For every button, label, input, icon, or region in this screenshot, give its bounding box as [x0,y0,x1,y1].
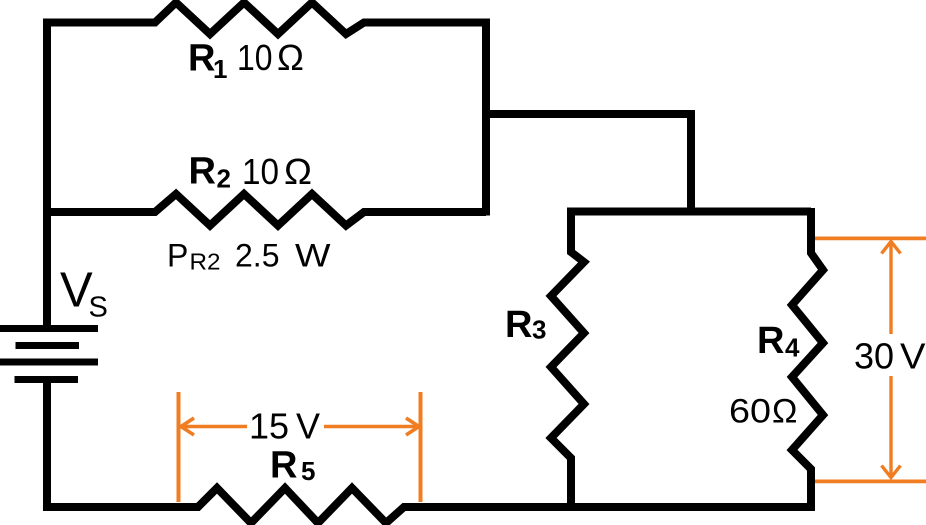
resistor R3 [551,212,584,508]
svg-text:5: 5 [301,456,315,486]
svg-text:R: R [505,304,532,346]
wire: branch from right vertical to middle column [486,114,691,216]
wire: middle horizontal wire (top of R3 and R4) [567,208,811,216]
15V dimension: right arrow line [324,425,419,429]
wire: left vertical + top wire to R1 [47,23,153,330]
svg-text:V: V [900,336,926,377]
svg-text:R2: R2 [190,249,221,275]
30V dimension: top tick [815,236,926,240]
30V dimension: bottom tick [815,479,926,483]
30V dimension: vertical line upper segment [889,242,892,335]
wire: R2 left wire [47,208,153,216]
wire: R2 right wire to node at right vertical [366,208,486,216]
15V dimension: left arrowhead [181,418,194,435]
wire: top wire right of R1 + right vertical down to R2 level [366,23,486,216]
battery Vs: long plate 1 (top, positive) [0,325,98,332]
svg-text:S: S [89,292,108,324]
svg-text:15: 15 [249,406,289,447]
wire: bottom wire right of R5 to R4 bottom corner [406,503,815,511]
wire: left vertical below battery + bottom wire to R5 [47,376,200,507]
svg-text:Ω: Ω [284,151,312,192]
svg-text:P: P [167,238,188,274]
30V dimension: vertical line lower segment [889,376,892,478]
svg-text:30: 30 [854,336,894,377]
svg-text:W: W [295,238,331,274]
15V dimension: left boundary line [177,392,181,502]
resistor R2 [150,194,369,226]
svg-text:2.5: 2.5 [235,238,279,274]
svg-text:2: 2 [217,164,231,194]
resistor R4 [792,208,823,507]
30V dimension: bottom arrowhead [882,466,901,478]
svg-text:Ω: Ω [277,37,304,78]
svg-text:60: 60 [729,393,771,431]
resistor R1 [150,3,369,35]
svg-text:10: 10 [242,151,279,192]
resistor R5 [196,488,409,523]
svg-text:R: R [188,38,215,80]
battery Vs: short plate 1 [16,342,80,349]
battery Vs: long plate 2 [0,359,98,366]
battery Vs: short plate 2 (bottom, negative) [15,376,79,383]
svg-text:10: 10 [237,37,273,78]
svg-text:V: V [296,406,320,447]
30V dimension: top arrowhead [882,242,901,254]
svg-text:4: 4 [785,333,800,363]
svg-text:R: R [189,151,216,193]
svg-text:R: R [270,445,297,487]
15V dimension: right arrowhead [406,418,419,435]
15V dimension: left arrow line [181,425,247,429]
svg-text:R: R [757,320,784,362]
15V dimension: right boundary line [419,392,423,502]
svg-text:Ω: Ω [772,393,797,431]
svg-text:1: 1 [213,54,227,84]
svg-text:3: 3 [532,315,546,345]
